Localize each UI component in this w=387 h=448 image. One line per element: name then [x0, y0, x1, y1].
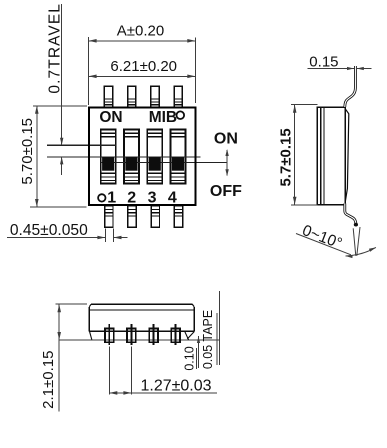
svg-text:0.15: 0.15 — [309, 53, 338, 70]
svg-text:ON: ON — [99, 109, 122, 126]
svg-text:1: 1 — [107, 189, 116, 206]
svg-text:3: 3 — [148, 189, 157, 206]
svg-text:0.7TRAVEL: 0.7TRAVEL — [47, 3, 64, 94]
svg-text:OFF: OFF — [210, 183, 242, 200]
svg-text:2.1±0.15: 2.1±0.15 — [40, 351, 57, 409]
svg-text:2: 2 — [127, 189, 136, 206]
svg-text:MIB: MIB — [149, 109, 177, 126]
svg-text:ON: ON — [214, 131, 238, 148]
svg-text:0.45±0.050: 0.45±0.050 — [10, 222, 88, 239]
svg-text:1.27±0.03: 1.27±0.03 — [140, 377, 211, 394]
svg-text:5.70±0.15: 5.70±0.15 — [19, 118, 36, 185]
svg-text:0.05 TAPE: 0.05 TAPE — [201, 310, 215, 369]
svg-text:0.10: 0.10 — [182, 346, 196, 370]
svg-text:4: 4 — [168, 189, 177, 206]
svg-text:A±0.20: A±0.20 — [117, 22, 164, 39]
svg-text:5.7±0.15: 5.7±0.15 — [277, 128, 294, 186]
svg-text:6.21±0.20: 6.21±0.20 — [110, 58, 177, 75]
